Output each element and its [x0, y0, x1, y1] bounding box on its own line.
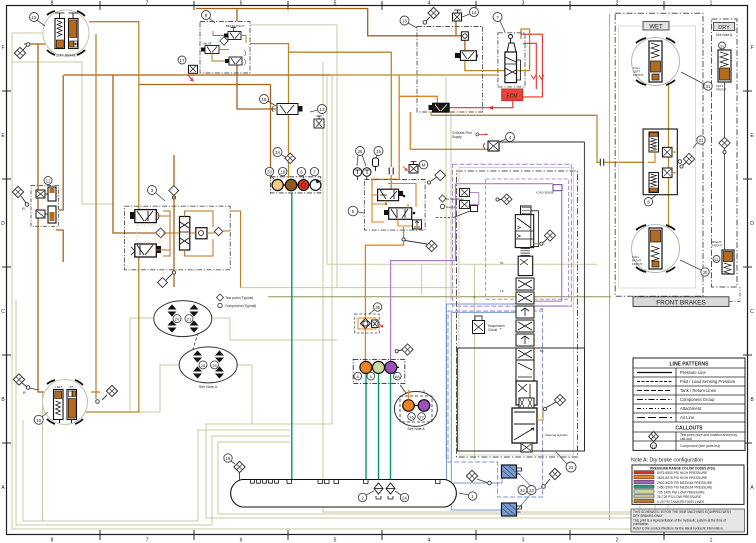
valve block left (parking) — [36, 187, 56, 223]
svg-text:Circuit: Circuit — [488, 328, 497, 332]
accumulator purple — [385, 361, 397, 373]
callout 32 — [518, 486, 527, 495]
svg-text:34: 34 — [275, 150, 280, 155]
wet brake top circle — [632, 38, 680, 86]
svg-text:28: 28 — [201, 363, 206, 368]
hydraulic pump blue lower — [502, 503, 522, 516]
leader between ellipses — [193, 333, 198, 349]
svg-text:DRY: DRY — [718, 25, 730, 31]
wire into big box — [124, 232, 155, 234]
callout 22 — [556, 452, 576, 472]
callout 2 — [358, 493, 366, 501]
svg-text:15: 15 — [376, 149, 382, 154]
svg-text:10: 10 — [36, 418, 42, 423]
callout 7 — [493, 13, 505, 33]
svg-text:17: 17 — [179, 58, 185, 63]
wire top bus — [196, 9, 461, 36]
callout 30 — [680, 260, 709, 276]
label FRONT BRAKES — [633, 297, 729, 307]
svg-text:To Wet Brake: To Wet Brake — [446, 197, 464, 201]
note test point typical — [216, 294, 256, 308]
svg-text:LOAD SENSE: LOAD SENSE — [536, 191, 554, 195]
callout 24 — [400, 493, 408, 501]
accumulator orange b — [403, 400, 415, 412]
diamond inside — [156, 228, 166, 238]
svg-text:21: 21 — [187, 317, 192, 322]
wire cross feed — [139, 84, 271, 86]
svg-text:Supply: Supply — [446, 205, 456, 209]
diamond right of stack upper — [540, 230, 556, 245]
small valve right of ecm drop — [484, 141, 500, 151]
main pump valve — [505, 52, 517, 83]
spring arcs — [244, 50, 246, 65]
svg-text:Component (Typical): Component (Typical) — [225, 304, 256, 308]
internal orange loop — [372, 184, 417, 230]
component group box top-center — [200, 22, 250, 74]
wire teal 2 — [365, 373, 367, 480]
svg-text:LS: LS — [500, 289, 504, 293]
DRY panel group — [712, 19, 738, 287]
test point diamond right of brake — [96, 385, 118, 403]
component group box ECM — [417, 27, 483, 113]
wire left mid entry — [113, 75, 124, 233]
callout 6 — [297, 167, 305, 179]
accumulator white — [310, 180, 321, 191]
label WET — [643, 22, 669, 31]
svg-text:RT: RT — [70, 385, 74, 389]
svg-text:LINE PATTERNS: LINE PATTERNS — [670, 362, 710, 368]
svg-text:16: 16 — [261, 97, 267, 102]
stack hatch joint — [521, 249, 531, 256]
test point diamond pump left — [466, 470, 491, 484]
valve D — [378, 189, 399, 201]
svg-text:D: D — [750, 221, 754, 227]
component group box brake cluster — [271, 177, 321, 193]
wire valve block lower — [56, 230, 63, 262]
svg-text:13: 13 — [319, 107, 325, 112]
svg-text:Tank / Return Lines: Tank / Return Lines — [680, 388, 716, 393]
svg-text:31: 31 — [699, 138, 704, 143]
callout 13b — [310, 105, 327, 114]
svg-text:11: 11 — [46, 179, 51, 184]
callout 27 — [418, 413, 426, 421]
svg-text:Pilot / Load Sensing Pressure: Pilot / Load Sensing Pressure — [680, 379, 736, 384]
valve C — [229, 57, 242, 65]
svg-text:27: 27 — [419, 415, 424, 420]
valve group top-center internals — [201, 24, 246, 65]
wire black solenoid link — [500, 142, 584, 348]
wire teal 3 — [378, 373, 380, 480]
accumulator brown — [285, 179, 297, 191]
test point diamond top-left — [14, 43, 29, 59]
test point diamond dry — [719, 137, 730, 153]
line samples — [637, 372, 672, 374]
svg-text:6: 6 — [240, 538, 243, 543]
callout 7b — [310, 167, 318, 175]
wire teal 1 — [291, 193, 293, 480]
svg-text:A: A — [356, 374, 359, 379]
pump circles — [353, 168, 361, 176]
wire teal tank lines — [292, 193, 391, 480]
svg-text:12: 12 — [652, 444, 656, 448]
stack tail — [521, 443, 532, 452]
svg-text:8: 8 — [51, 538, 54, 543]
relief valve top — [453, 10, 462, 21]
svg-text:4: 4 — [428, 538, 431, 543]
dry brake top cartridge — [716, 42, 731, 92]
test point diamond left edge — [12, 186, 28, 211]
tank check diamonds — [374, 483, 383, 494]
svg-text:BRAKE PILOT: BRAKE PILOT — [226, 24, 245, 28]
valve HMU top — [135, 210, 157, 223]
accumulator tan — [272, 179, 283, 190]
valve 16 — [272, 104, 303, 115]
svg-text:FRONT: FRONT — [712, 244, 722, 248]
component group box pale-green inner — [459, 168, 574, 456]
svg-text:WET: WET — [649, 24, 663, 30]
valve 17 — [188, 65, 198, 81]
test point diamond stack left — [496, 194, 512, 205]
component group box steering — [125, 206, 231, 270]
wire ECM long pilot — [330, 74, 499, 76]
text stack labels — [500, 261, 568, 437]
callout 14 — [462, 8, 479, 18]
solenoid valve purple box left A — [460, 189, 479, 197]
test point diamond tank left — [234, 461, 245, 479]
test point diamond pump right — [542, 468, 561, 488]
callout A — [354, 372, 362, 380]
svg-text:5: 5 — [334, 538, 337, 543]
main control valve stack — [512, 206, 539, 452]
svg-text:22: 22 — [568, 465, 574, 470]
wire purple top — [456, 183, 554, 185]
attachment leader small box — [436, 206, 478, 218]
callout 31 top — [681, 72, 712, 90]
accumulator purple b — [418, 400, 430, 412]
wire center box loop — [372, 75, 399, 186]
callout 23 — [527, 486, 536, 495]
test point diamond left edge B — [13, 374, 38, 395]
wire top-center box down — [237, 64, 276, 109]
component group box valve5 — [364, 180, 425, 231]
leader cluster to ellipse — [400, 385, 406, 393]
svg-text:Note A: Dry brake configuratio: Note A: Dry brake configuration — [631, 458, 703, 464]
callout 13 — [400, 16, 417, 28]
check valve ellipse upper — [154, 301, 212, 337]
wire brake pilot — [95, 34, 97, 399]
internal orange wiring — [156, 211, 241, 288]
diamond lower drop — [402, 238, 437, 252]
svg-text:1450-2900 PSI MEDIUM PRESSURE: 1450-2900 PSI MEDIUM PRESSURE — [657, 486, 713, 490]
stack section 1 — [515, 215, 533, 248]
svg-text:5: 5 — [334, 1, 337, 7]
svg-text:35: 35 — [375, 305, 380, 310]
svg-text:5075-6500 PSI HIGH PRESSURE: 5075-6500 PSI HIGH PRESSURE — [657, 471, 708, 475]
svg-text:ECM: ECM — [506, 94, 517, 100]
wire valve block feed — [59, 75, 64, 210]
callout 31b — [693, 136, 705, 148]
svg-text:0-25 PSI TANK/RETURN LINES: 0-25 PSI TANK/RETURN LINES — [657, 500, 705, 504]
WET panel group — [615, 13, 703, 296]
svg-text:Pressure Line: Pressure Line — [680, 370, 707, 375]
svg-text:3625-5075 PSI HIGH PRESSURE: 3625-5075 PSI HIGH PRESSURE — [657, 476, 708, 480]
accumulator cluster lower — [354, 361, 401, 380]
separator line right section — [609, 14, 611, 520]
svg-text:31: 31 — [720, 45, 724, 49]
hatched joint — [519, 398, 534, 408]
callout 5b — [367, 372, 375, 380]
callout 29 — [211, 361, 219, 369]
component group box dry — [712, 19, 738, 287]
accumulator cluster upper — [272, 179, 321, 191]
hydraulic pump blue upper — [502, 465, 522, 478]
svg-text:725-1450 PSI LOW PRESSURE: 725-1450 PSI LOW PRESSURE — [657, 490, 705, 494]
diamond right of valve5 — [427, 170, 445, 184]
hydraulic tank — [231, 480, 477, 508]
breaker symbol wet feed — [600, 159, 603, 166]
svg-text:See Note A: See Note A — [199, 385, 218, 389]
svg-text:Attachment: Attachment — [680, 406, 702, 411]
svg-text:FRONT: FRONT — [632, 262, 642, 266]
svg-text:DRY BRAKES ONLY.: DRY BRAKES ONLY. — [633, 514, 664, 518]
callout 8 — [644, 195, 656, 206]
callout 35 — [369, 303, 382, 314]
valve5 group internals — [372, 184, 422, 230]
stack spool cells — [516, 278, 534, 290]
svg-text:7: 7 — [146, 538, 149, 543]
svg-text:LEFT: LEFT — [55, 385, 63, 389]
svg-text:Test point (Typical): Test point (Typical) — [225, 296, 253, 300]
svg-text:32: 32 — [520, 488, 525, 493]
wire right brake lateral — [91, 391, 100, 393]
valve E — [389, 208, 412, 220]
label DRY — [714, 22, 735, 30]
wire purple pilot lines — [391, 184, 568, 400]
wire stack connections — [534, 244, 543, 420]
svg-text:CALLOUTS: CALLOUTS — [675, 426, 703, 432]
callout 10 — [34, 412, 48, 424]
svg-text:M: M — [422, 163, 426, 168]
wet brake bottom circle — [632, 225, 680, 273]
svg-text:Component Group: Component Group — [680, 397, 715, 402]
callout 5 — [348, 206, 364, 216]
callout 3 — [148, 186, 166, 202]
callout 1 — [468, 492, 476, 500]
breaker — [389, 168, 393, 175]
dot junction — [385, 203, 387, 205]
svg-text:33: 33 — [267, 170, 272, 175]
wire valve5 tank drop — [365, 227, 403, 362]
svg-text:Refer to the service literatur: Refer to the service literature for the … — [633, 527, 724, 531]
port dot wet block — [678, 160, 682, 164]
stack section low — [516, 381, 537, 405]
svg-text:1: 1 — [710, 1, 713, 7]
dry link line — [724, 82, 726, 250]
note text pilot supply — [452, 131, 488, 139]
test point diamond wet — [680, 153, 695, 168]
note pair right — [439, 195, 464, 209]
callout 21 — [185, 315, 193, 323]
svg-text:F: F — [1, 45, 4, 51]
svg-text:R: R — [23, 390, 26, 395]
component group box left valve — [31, 185, 59, 226]
callout 19 — [224, 454, 235, 464]
wire purple riser — [391, 184, 456, 362]
svg-text:6A: 6A — [395, 374, 400, 379]
callout 6A — [394, 372, 402, 380]
svg-text:2900-3625 PSI MEDIUM PRESSURE: 2900-3625 PSI MEDIUM PRESSURE — [657, 481, 713, 485]
callout 20 — [173, 315, 181, 323]
wire wet brake columns — [668, 82, 670, 228]
svg-text:20: 20 — [175, 317, 180, 322]
dry brake bottom cartridge — [712, 240, 734, 274]
svg-text:25: 25 — [357, 149, 363, 154]
check valve ellipse lower — [179, 347, 237, 389]
svg-text:B1: B1 — [540, 349, 544, 353]
callout 28 — [199, 361, 207, 369]
accumulator red — [298, 180, 309, 191]
title note block — [631, 509, 745, 532]
wire valve16 riser — [250, 44, 289, 178]
small check — [413, 220, 422, 229]
svg-text:6: 6 — [240, 1, 243, 7]
brake assembly RIGHT BRAKE — [43, 380, 88, 425]
wire right riser to wet — [518, 29, 530, 71]
diamond below box — [158, 271, 176, 288]
svg-text:12: 12 — [31, 15, 37, 20]
svg-text:C: C — [1, 309, 5, 315]
purple header component — [536, 185, 562, 195]
test point diamond — [220, 37, 228, 45]
svg-text:VALVE: VALVE — [203, 42, 212, 46]
callout 12 — [30, 13, 46, 27]
callout M — [415, 161, 428, 169]
EPR valve — [460, 51, 476, 61]
side box left of stack — [473, 316, 505, 334]
component group box main stack — [457, 171, 578, 457]
svg-text:4: 4 — [428, 1, 431, 7]
brake accumulator ellipse — [394, 391, 437, 431]
callout 26 — [408, 413, 416, 421]
svg-text:29: 29 — [212, 363, 217, 368]
wire ecm drop — [409, 112, 411, 149]
svg-text:Supply: Supply — [452, 135, 462, 139]
regulator small under callout13 — [314, 116, 324, 128]
diamond right of stack lower — [543, 394, 565, 410]
wet manifold block — [643, 129, 677, 195]
svg-text:D: D — [1, 221, 5, 227]
tank ports — [251, 480, 441, 484]
stack section 2 — [518, 256, 533, 275]
svg-text:F: F — [750, 45, 753, 51]
wire from left brake to center — [89, 22, 139, 210]
svg-text:FRONT: FRONT — [633, 73, 643, 77]
svg-text:See Note A: See Note A — [407, 427, 425, 431]
component group box blue — [448, 311, 543, 497]
test point diamond above cluster — [395, 344, 413, 355]
wire orange into ellipse — [408, 390, 410, 400]
steering valve group internals — [130, 210, 241, 288]
spool center — [180, 217, 190, 251]
wire steering tank drop — [173, 155, 175, 287]
component group box lower cluster — [353, 359, 405, 383]
svg-text:A1: A1 — [540, 307, 544, 311]
svg-text:26: 26 — [409, 415, 414, 420]
callout 18 — [279, 167, 287, 175]
svg-text:C: C — [750, 309, 754, 315]
svg-text:PRESSURE RANGE COLOR CODES (PS: PRESSURE RANGE COLOR CODES (PSI) — [650, 466, 715, 470]
component group box purple inner — [486, 179, 569, 299]
svg-text:1: 1 — [710, 538, 713, 543]
svg-text:23: 23 — [529, 488, 534, 493]
wire epr lines — [399, 96, 437, 103]
svg-text:7: 7 — [146, 1, 149, 7]
component group box ECM valve — [498, 33, 525, 87]
svg-text:call-out): call-out) — [680, 437, 692, 441]
brake assembly LEFT BRAKE — [43, 10, 89, 58]
color code table — [632, 465, 744, 504]
row labels — [680, 370, 736, 420]
wire teal 4 — [390, 373, 392, 480]
ECM group internals — [455, 32, 521, 83]
component group box purple — [453, 164, 572, 306]
wire golden network — [79, 22, 669, 412]
svg-text:FRONT BRAKES: FRONT BRAKES — [656, 299, 706, 306]
svg-text:P1: P1 — [500, 261, 504, 265]
svg-text:25-725 PSI LOW PRESSURE: 25-725 PSI LOW PRESSURE — [657, 495, 702, 499]
svg-text:Component (see parts list): Component (see parts list) — [680, 444, 720, 448]
air line dark-olive — [268, 296, 611, 299]
svg-text:2: 2 — [616, 538, 619, 543]
callout 33 — [265, 167, 274, 179]
wire pressure dark orange network — [24, 9, 465, 393]
legend line patterns table — [633, 358, 745, 450]
svg-text:R: R — [22, 206, 25, 211]
pump funnel — [507, 43, 516, 52]
ECM box — [502, 89, 523, 101]
wire orange center group — [365, 75, 437, 362]
callout 9 — [202, 11, 216, 24]
svg-text:See Note A: See Note A — [716, 33, 733, 37]
test point diamond ecm top — [423, 7, 439, 24]
accumulator orange — [360, 361, 372, 373]
svg-text:3: 3 — [522, 1, 525, 7]
sensor box — [461, 32, 468, 41]
wire left diamond feed — [24, 43, 57, 45]
wire left brake supply vertical — [38, 44, 44, 392]
check box right — [196, 228, 207, 239]
component group box solid lower — [457, 348, 584, 451]
svg-text:18: 18 — [280, 170, 285, 175]
valve HMU bottom — [135, 244, 157, 257]
svg-text:14: 14 — [471, 10, 477, 15]
inner pale dashed — [137, 225, 160, 243]
svg-text:19: 19 — [226, 456, 231, 461]
pilot valve group center — [353, 158, 418, 180]
svg-text:Steering Cylinder: Steering Cylinder — [545, 433, 568, 437]
svg-text:24: 24 — [402, 496, 407, 501]
cylinder actuator — [512, 408, 537, 443]
svg-text:30: 30 — [703, 270, 708, 275]
svg-text:8: 8 — [51, 1, 54, 7]
svg-text:3: 3 — [522, 538, 525, 543]
callout 4 — [499, 133, 515, 143]
wire red ecm lines — [449, 34, 544, 110]
accumulator pale green — [373, 361, 385, 373]
svg-text:publication.: publication. — [633, 522, 649, 526]
svg-text:13: 13 — [402, 19, 408, 24]
solenoid valve purple box left B — [460, 193, 479, 209]
